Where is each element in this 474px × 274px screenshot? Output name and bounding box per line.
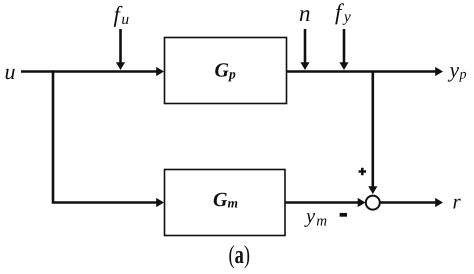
arrowhead into summer from top — [368, 186, 377, 194]
svg-text:r: r — [453, 189, 462, 213]
arrowhead fy onto yp wire — [339, 62, 348, 70]
arrowhead fu onto u wire — [116, 62, 125, 70]
arrowhead to yp — [435, 67, 443, 76]
arrowhead to r — [435, 198, 443, 207]
summing junction — [366, 196, 380, 210]
svg-text:fy: fy — [335, 0, 351, 26]
wire fu disturbance arrow — [119, 29, 122, 64]
arrowhead into Gm — [156, 198, 164, 207]
svg-text:(a): (a) — [229, 240, 251, 269]
block Gm — [165, 170, 286, 236]
svg-text:ym: ym — [304, 205, 327, 229]
wire Gm output to summer — [285, 201, 359, 204]
svg-text:u: u — [5, 59, 16, 84]
arrowhead into summer from left — [358, 198, 366, 207]
wire branch down to summer — [371, 72, 374, 188]
svg-text:fu: fu — [114, 2, 130, 28]
wire n disturbance arrow — [304, 29, 307, 64]
minus sign — [340, 213, 347, 217]
wire fy disturbance arrow — [343, 29, 346, 64]
svg-text:yp: yp — [448, 58, 467, 83]
block Gp — [165, 38, 287, 104]
wire summer to r — [380, 201, 436, 204]
arrowhead n onto yp wire — [300, 62, 309, 70]
junction branch of u — [53, 70, 157, 202]
arrowhead into Gp — [156, 67, 164, 76]
plus sign — [359, 168, 366, 175]
wire u to Gp input — [21, 70, 157, 73]
svg-text:n: n — [299, 1, 311, 26]
wire Gp output to yp — [287, 70, 437, 73]
